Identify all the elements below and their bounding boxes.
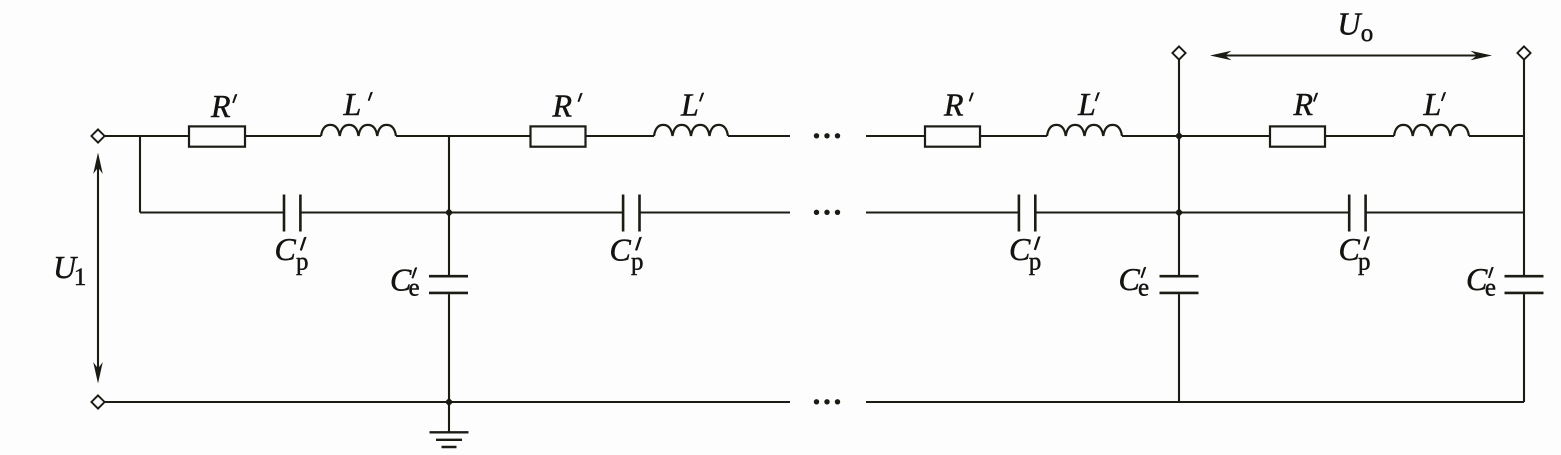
svg-text:C: C — [1009, 231, 1031, 267]
svg-text:R: R — [943, 87, 964, 123]
svg-text:U: U — [1337, 6, 1362, 42]
svg-text:C: C — [610, 232, 632, 268]
svg-text:p: p — [1358, 249, 1371, 276]
svg-text:p: p — [1029, 249, 1042, 276]
svg-text:R: R — [552, 88, 573, 124]
svg-text:C: C — [275, 231, 297, 267]
svg-text:e: e — [1485, 274, 1496, 301]
svg-text:L: L — [680, 87, 699, 123]
svg-text:R: R — [1293, 86, 1314, 122]
svg-text:L: L — [343, 86, 362, 122]
svg-text:L: L — [1077, 86, 1096, 122]
svg-text:p: p — [296, 249, 309, 276]
svg-text:e: e — [409, 274, 420, 301]
svg-text:R: R — [210, 88, 231, 124]
svg-text:o: o — [1361, 20, 1374, 47]
svg-text:L: L — [1423, 86, 1442, 122]
svg-text:e: e — [1138, 274, 1149, 301]
svg-text:p: p — [631, 249, 644, 276]
svg-text:1: 1 — [74, 264, 87, 291]
